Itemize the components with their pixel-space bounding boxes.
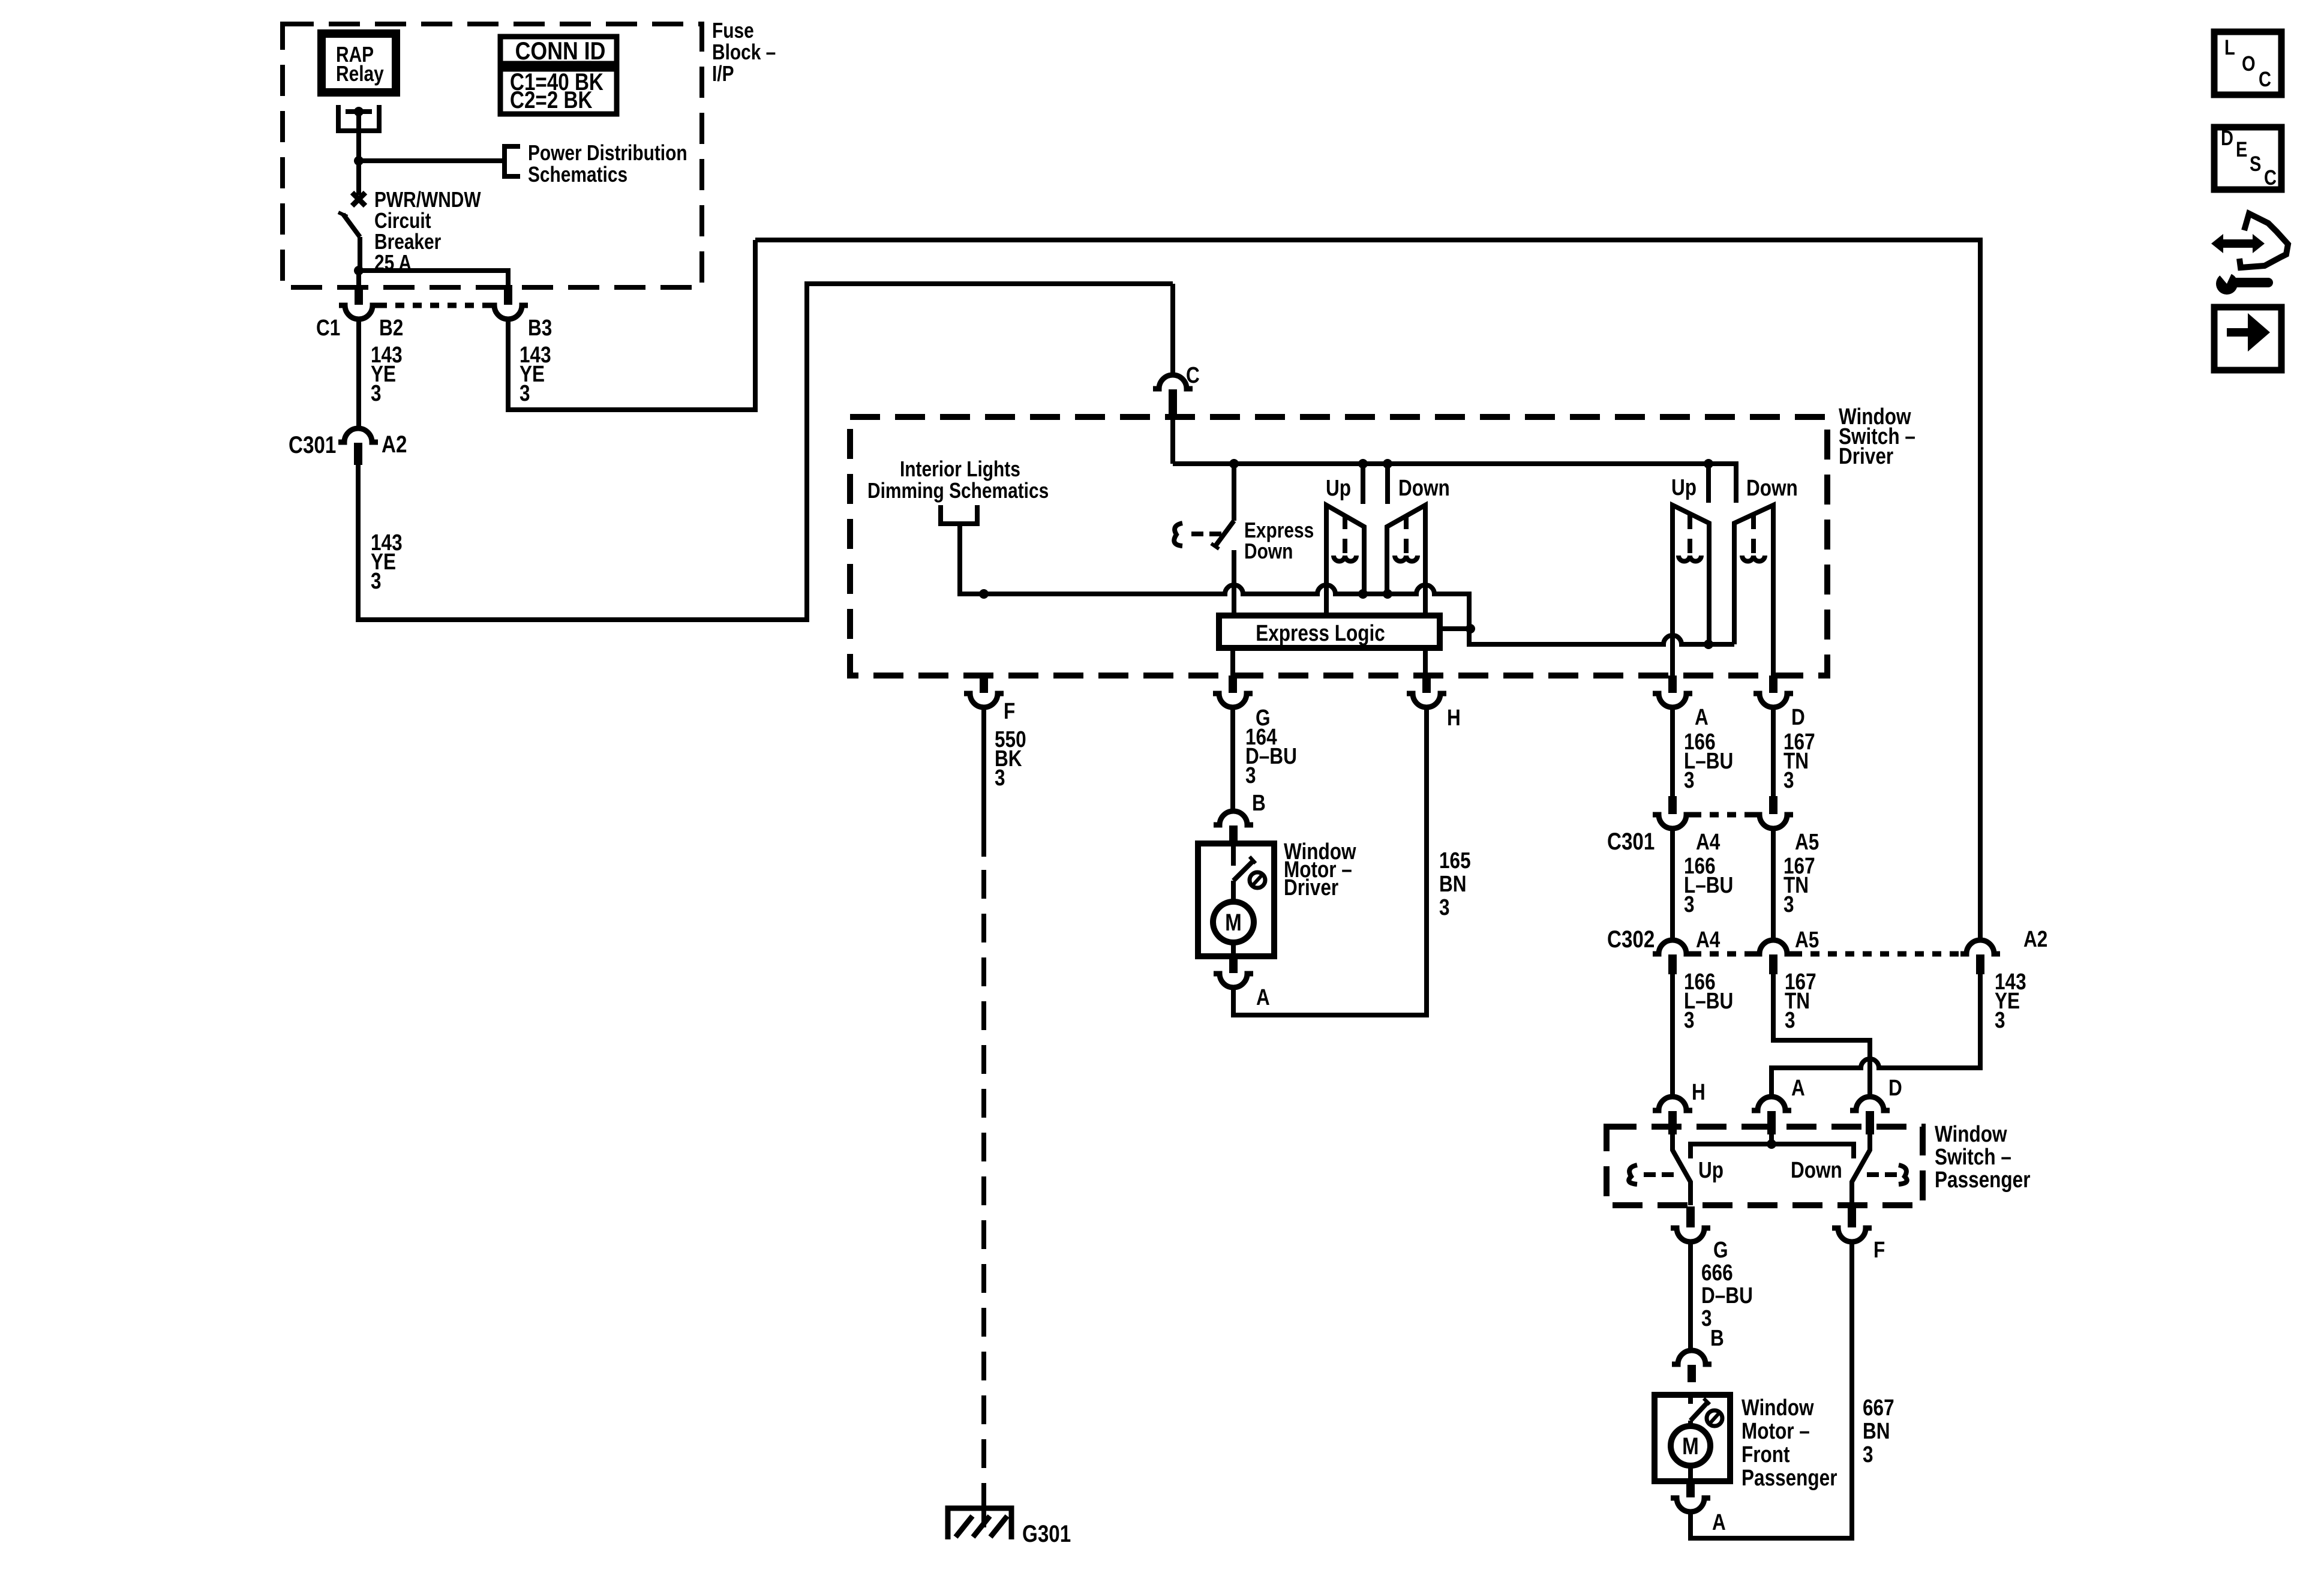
connector pin D (passenger switch) [1850,1097,1890,1110]
connector pin B (window motor passenger) [1672,1350,1712,1364]
svg-text:H: H [1447,705,1461,730]
svg-text:C2=2 BK: C2=2 BK [510,86,593,113]
svg-text:C301: C301 [1607,828,1655,855]
svg-text:B3: B3 [528,315,552,340]
svg-text:165: 165 [1439,848,1471,873]
svg-text:G301: G301 [1022,1520,1071,1547]
connector pin B (window motor driver) [1214,811,1253,825]
wire internal power bus [1173,464,1736,503]
svg-text:B: B [1252,790,1266,815]
svg-text:3: 3 [1995,1007,2005,1032]
connector pin A (window motor passenger) [1686,1482,1695,1497]
icon forward arrow box [2214,307,2281,370]
wire express logic pin G [1230,648,1235,676]
svg-text:A2: A2 [2023,926,2047,951]
svg-text:O: O [2242,52,2256,75]
wire common run to right pair [1469,629,1734,644]
svg-text:D: D [1791,704,1805,730]
connector pin H (driver switch) [1422,676,1431,693]
connector pin F (passenger switch) [1848,1206,1856,1227]
window motor front passenger box [1655,1395,1730,1481]
svg-text:Up: Up [1671,475,1697,500]
svg-text:C302: C302 [1607,926,1655,953]
wire relay output to junction [356,112,361,161]
svg-text:3: 3 [1684,767,1695,792]
passenger internal bus [1691,1144,1854,1158]
connector C pin (driver switch) [1170,284,1175,375]
svg-text:3: 3 [371,380,382,406]
wire B3 down and across to top bus [508,240,755,410]
svg-text:BN: BN [1863,1418,1890,1443]
svg-text:L: L [2224,35,2235,59]
svg-text:Express Logic: Express Logic [1256,620,1385,646]
relay K RAP Relay box [322,34,396,92]
connector C1 pin B2 [355,285,363,305]
svg-text:A: A [1712,1509,1726,1535]
wire express blade to express logic [1232,550,1236,616]
wire 550 BK solid part [981,707,986,857]
svg-text:3: 3 [1684,1007,1695,1032]
switch S1 express down: wire from bus [1232,464,1236,521]
dotted line connector C1 [378,303,488,308]
svg-text:Down: Down [1398,475,1450,500]
connector C302 pin A5 [1753,940,1793,954]
wire express logic pin H [1423,648,1428,676]
svg-text:Up: Up [1326,475,1351,500]
svg-text:Down: Down [1746,475,1798,500]
svg-text:3: 3 [520,380,530,406]
wire motor A to pin F (667 BN) [1691,1242,1852,1538]
svg-text:C: C [2264,166,2277,189]
wire G to motor B (passenger) [1688,1242,1693,1350]
wire junction to B3 drop [359,271,508,285]
svg-text:3: 3 [1783,767,1794,792]
icon wiring/repair (double arrow) [2211,234,2265,253]
svg-text:3: 3 [1439,894,1450,920]
switch flag Down (driver, left pair) [1387,505,1425,616]
switch flag Up (driver, right pair) [1673,505,1709,676]
svg-text:C: C [1186,362,1200,388]
wire 143 YE top run to right side [755,240,1980,940]
off-page bracket Power Distribution [505,146,520,176]
connector pin G (driver switch) [1229,676,1237,693]
svg-text:Front: Front [1742,1442,1790,1467]
svg-text:Driver: Driver [1284,875,1339,900]
connector C302 pin A2 [1960,940,2000,954]
connector pin A (driver switch) [1668,676,1677,693]
svg-text:S: S [2250,152,2261,175]
svg-text:666: 666 [1701,1260,1733,1285]
svg-text:Fuse: Fuse [712,19,754,43]
svg-text:3: 3 [1863,1442,1873,1467]
wire switch common run (hops over express, Up, Down) [960,585,1469,629]
wire pin A to internal bus [1769,1134,1774,1144]
connector pin A (passenger switch) [1752,1097,1791,1110]
icon wiring/repair (wrench) [2216,273,2238,295]
svg-text:3: 3 [995,765,1005,790]
svg-text:3: 3 [1783,891,1794,917]
wire 143 YE jog to passenger pin A (hops over D wire) [1771,974,1980,1097]
connector C1 pin B3 [504,285,512,305]
svg-text:Down: Down [1244,539,1293,563]
motor M front passenger [1688,1421,1693,1426]
relay RAP output pin bracket [338,105,379,131]
window motor driver box [1198,843,1274,956]
switch flag Down (driver, right pair) [1734,505,1773,676]
wire pin D down to C301 [1771,707,1776,796]
node right pair tap [1704,640,1713,649]
svg-text:C301: C301 [289,431,336,458]
svg-text:Window: Window [1742,1395,1814,1420]
switch blade Up (passenger) [1673,1134,1691,1205]
svg-text:F: F [1004,698,1015,724]
node flag taps (left pair) [1358,589,1368,599]
connector C301 pin A2 (left) [338,428,378,442]
svg-text:3: 3 [1245,763,1256,788]
connector pin G (passenger switch) [1686,1206,1695,1227]
express logic box [1219,616,1440,648]
connector C301 pin A4 [1668,796,1677,814]
wire ground stub [981,1494,986,1527]
wire 143 YE to driver switch feed [358,284,1173,620]
circuit breaker CB fuse element X [352,193,365,206]
dotted line connector C302 [1692,951,1753,957]
svg-text:A4: A4 [1696,829,1721,854]
fuse block I/P dashed border [283,24,702,287]
svg-text:C1: C1 [316,315,340,340]
svg-text:BN: BN [1439,871,1467,896]
motor passenger thermal breaker [1688,1395,1693,1404]
svg-text:CONN ID: CONN ID [515,37,606,65]
linkage left (passenger) [1629,1165,1637,1184]
svg-text:M: M [1225,909,1242,936]
svg-text:A4: A4 [1696,927,1721,952]
switch blade Down (passenger) [1852,1134,1870,1205]
wire A5 between connectors [1771,828,1776,940]
CONN ID table [500,37,617,114]
wire 550 BK dashed to ground [981,870,986,1494]
node breaker output junction [354,266,364,275]
node bus taps [1229,459,1239,469]
svg-text:Interior Lights: Interior Lights [900,457,1020,481]
circuit breaker CB blade [343,214,360,237]
svg-text:Schematics: Schematics [528,163,627,187]
svg-text:A: A [1791,1075,1805,1100]
motor driver thermal breaker [1231,843,1236,866]
node dimming/F junction [979,589,989,599]
svg-text:Relay: Relay [336,62,384,86]
wire Down stub (left pair) [1385,464,1390,504]
wire Up stub (right pair) [1706,464,1711,503]
off-page bracket Interior Lights Dimming [941,505,977,524]
wire B2 down to C301 [356,319,361,428]
connector C302 pin A4 [1653,940,1692,954]
node express logic right pin junction [1466,624,1475,634]
wire junction to circuit breaker [356,161,361,195]
svg-text:A: A [1695,704,1709,730]
svg-text:Motor –: Motor – [1742,1418,1810,1443]
svg-text:B: B [1710,1325,1724,1350]
svg-text:A5: A5 [1795,927,1819,952]
svg-text:D: D [1888,1075,1902,1100]
svg-text:H: H [1692,1079,1706,1104]
node passenger bus tap [1767,1139,1776,1149]
wire A4 between connectors [1670,828,1675,940]
wire G to motor B [1230,707,1235,811]
switch flag Up (driver, left pair) [1326,505,1364,616]
wire express logic right pin [1440,626,1470,631]
switch S1 express down: blade [1215,521,1234,546]
svg-text:D: D [2221,126,2233,149]
svg-text:Passenger: Passenger [1742,1465,1837,1490]
svg-text:A: A [1256,984,1270,1010]
window switch passenger dashed box [1607,1127,1923,1205]
svg-text:B2: B2 [379,315,403,340]
node relay-feed junction [354,156,364,166]
wire breaker to node [358,237,362,271]
linkage right (passenger) [1899,1165,1907,1184]
svg-text:G: G [1713,1237,1728,1262]
wire 167 TN jog to passenger pin D [1773,974,1870,1097]
svg-text:Block –: Block – [712,40,776,64]
icon wiring/repair (car outline) [2239,214,2288,268]
icon DESC box [2214,127,2281,190]
svg-text:D–BU: D–BU [1701,1283,1753,1308]
wire dimming feed down [960,524,984,594]
connector C301 pin A5 [1769,796,1777,814]
wire pin A down to C301 [1670,707,1675,796]
connector pin D (driver switch) [1769,676,1777,693]
svg-text:A5: A5 [1795,829,1819,854]
svg-text:F: F [1873,1237,1885,1262]
wire 166 L-BU down to passenger pin H [1670,974,1675,1097]
connector pin F (driver switch) [980,676,988,693]
ground G301 symbol [948,1508,1011,1539]
dotted line connector C301 [1692,812,1753,818]
wire junction to power distribution bracket [359,158,503,163]
svg-text:C: C [2259,67,2271,91]
svg-text:I/P: I/P [712,62,734,86]
svg-text:Power Distribution: Power Distribution [528,141,687,165]
connector pin H (passenger switch) [1653,1097,1692,1110]
wire Up stub (left pair) [1361,464,1365,504]
icon LOC box [2214,32,2281,95]
svg-text:A2: A2 [382,431,407,458]
svg-text:Passenger: Passenger [1935,1167,2031,1192]
svg-text:667: 667 [1863,1395,1894,1420]
svg-text:3: 3 [1684,891,1695,917]
switch S1 express down: linkage [1174,523,1182,546]
svg-text:Switch –: Switch – [1935,1144,2011,1169]
svg-text:E: E [2236,137,2247,161]
svg-text:Dimming Schematics: Dimming Schematics [867,479,1049,503]
svg-text:3: 3 [1785,1007,1795,1032]
svg-text:Up: Up [1698,1157,1724,1182]
wire motor A to pin H [1233,707,1427,1015]
connector pin A (window motor driver) [1229,957,1238,973]
svg-text:Down: Down [1791,1157,1842,1182]
window switch driver dashed box [850,417,1827,676]
svg-text:3: 3 [371,568,382,593]
wire C to internal bus [1170,414,1175,464]
svg-text:M: M [1682,1433,1699,1460]
svg-text:Window: Window [1935,1121,2007,1146]
svg-text:Driver: Driver [1839,443,1894,469]
wire breaker junction down to C1 pin B2 [356,271,361,285]
motor M driver [1231,881,1236,902]
